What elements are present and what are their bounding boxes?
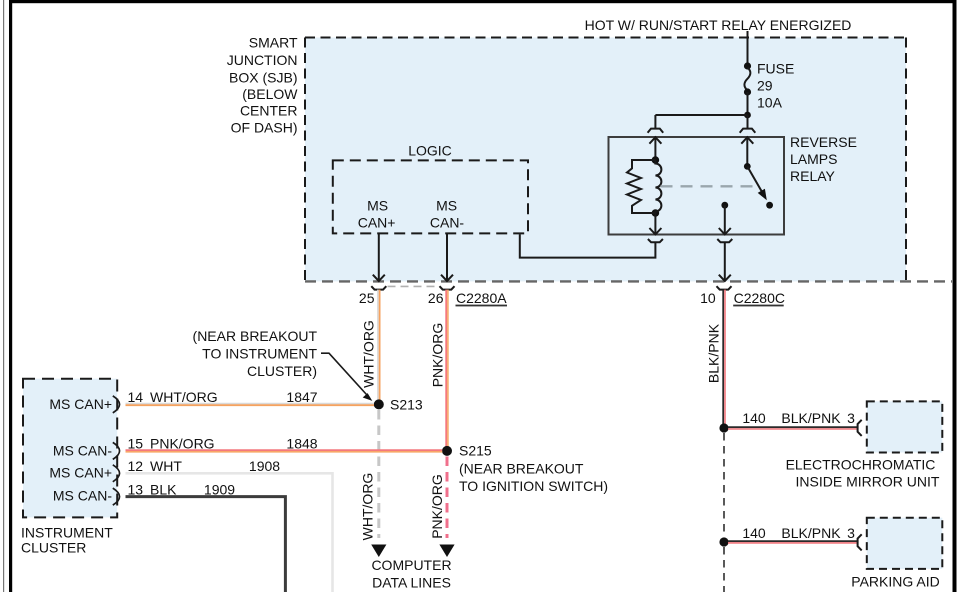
SJB left edge	[304, 38, 306, 282]
splice S213	[374, 399, 384, 409]
wire coil return to logic box	[520, 234, 656, 257]
parking aid module box	[867, 518, 943, 569]
wire 1848 PNK/ORG pin15 to S215	[126, 449, 443, 451]
pin socket arc 12	[113, 465, 120, 482]
coil (relay winding)	[655, 160, 661, 213]
svg-text:140: 140	[742, 410, 766, 426]
svg-text:CLUSTER: CLUSTER	[21, 540, 86, 556]
connector cup pin 10	[717, 286, 732, 289]
note arrow to S213	[321, 353, 367, 394]
label SMART JUNCTION BOX (SJB) (BELOW CENTER OF DASH)	[227, 35, 299, 136]
connector hat right relay pin	[740, 129, 756, 133]
connector cup parking aid	[858, 534, 862, 550]
svg-text:PARKING AID: PARKING AID	[851, 574, 939, 590]
svg-text:INSTRUMENT: INSTRUMENT	[21, 525, 113, 541]
svg-text:10A: 10A	[757, 95, 783, 111]
wire WHT dashed (S213 to computer data lines)	[377, 410, 380, 538]
svg-text:MS CAN-: MS CAN-	[53, 442, 112, 458]
svg-text:PNK/ORG: PNK/ORG	[430, 323, 446, 388]
wire MS CAN- logic to SJB edge	[446, 233, 448, 281]
page edge thin line	[3, 0, 4, 592]
arrow into relay left pin	[649, 137, 661, 144]
wire PNK/ORG vertical (26 to S215)	[445, 290, 447, 451]
wire relay common down	[724, 205, 726, 234]
connector cup relay common	[717, 239, 732, 242]
wire BLK dashed below parking tap	[723, 547, 725, 592]
node coil top	[652, 156, 660, 164]
wire 140 BLK/PNK to parking aid	[728, 540, 857, 542]
svg-text:CLUSTER): CLUSTER)	[247, 363, 317, 379]
svg-text:BLK: BLK	[150, 481, 177, 497]
svg-text:WHT: WHT	[150, 458, 182, 474]
wire MS CAN+ logic to SJB edge	[378, 233, 380, 281]
splice S215	[442, 446, 452, 456]
wire 140 BLK/PNK to mirror	[728, 426, 857, 428]
wire from HOT label to fuse	[747, 31, 749, 66]
svg-text:MS CAN-: MS CAN-	[53, 488, 112, 504]
svg-text:1909: 1909	[204, 481, 235, 497]
svg-text:SMART: SMART	[249, 35, 298, 51]
arrow out relay common	[719, 228, 731, 234]
arrow BLK/PNK at SJB edge	[719, 275, 731, 281]
svg-text:S213: S213	[390, 397, 423, 413]
svg-text:14: 14	[128, 389, 144, 405]
switch arm	[747, 166, 762, 192]
svg-text:PNK/ORG: PNK/ORG	[429, 474, 445, 539]
arrow to computer data lines (left)	[371, 545, 386, 558]
svg-text:INSIDE MIRROR UNIT: INSIDE MIRROR UNIT	[796, 474, 940, 490]
svg-text:MS: MS	[436, 197, 457, 213]
svg-text:TO IGNITION SWITCH): TO IGNITION SWITCH)	[459, 478, 608, 494]
svg-text:WHT/ORG: WHT/ORG	[150, 389, 218, 405]
wire left drop to relay pin	[654, 115, 656, 129]
svg-text:10: 10	[700, 290, 716, 306]
svg-text:(BELOW: (BELOW	[242, 86, 298, 102]
connector cup coil return	[648, 239, 663, 242]
wire coil return down	[654, 213, 656, 234]
svg-text:BOX (SJB): BOX (SJB)	[229, 70, 297, 86]
svg-text:COMPUTER: COMPUTER	[371, 557, 451, 573]
svg-text:(NEAR BREAKOUT: (NEAR BREAKOUT	[193, 328, 318, 344]
arrow out coil return	[649, 228, 661, 234]
svg-text:140: 140	[742, 525, 766, 541]
note NEAR BREAKOUT TO INSTRUMENT CLUSTER	[193, 328, 318, 379]
svg-text:CAN+: CAN+	[358, 215, 396, 231]
svg-text:TO INSTRUMENT: TO INSTRUMENT	[202, 346, 317, 362]
border top	[9, 0, 956, 3]
pin socket arc 13	[113, 488, 120, 505]
wire BLK dashed between junctions	[723, 433, 725, 537]
svg-text:DATA LINES: DATA LINES	[372, 575, 451, 591]
svg-text:OF DASH): OF DASH)	[231, 120, 298, 136]
svg-text:MS CAN+: MS CAN+	[49, 396, 112, 412]
arrow into relay right pin	[741, 137, 753, 144]
wire fuse to junction	[747, 92, 749, 115]
svg-text:MS CAN+: MS CAN+	[49, 465, 112, 481]
svg-text:C2280C: C2280C	[734, 290, 785, 306]
svg-text:HOT W/ RUN/START RELAY ENERGIZ: HOT W/ RUN/START RELAY ENERGIZED	[585, 17, 852, 33]
connector cup pin 25	[371, 286, 386, 289]
SJB top edge	[305, 37, 906, 39]
wire BLK/PNK vertical (10 to junction)	[722, 290, 724, 428]
connector cup mirror	[858, 420, 862, 436]
fuse F29 10A	[744, 62, 751, 69]
junction node above relay	[744, 112, 751, 119]
wire 1847 WHT/ORG pin14 to S213	[126, 403, 375, 405]
svg-text:BLK/PNK: BLK/PNK	[781, 410, 841, 426]
instrument cluster box	[23, 379, 117, 518]
svg-text:3: 3	[847, 525, 855, 541]
SJB bottom edge	[305, 280, 952, 282]
resistor (relay)	[627, 160, 655, 213]
svg-text:25: 25	[359, 290, 375, 306]
wire junction horizontal	[655, 114, 747, 116]
svg-text:RELAY: RELAY	[790, 168, 836, 184]
svg-text:PNK/ORG: PNK/ORG	[150, 436, 215, 452]
junction node parking tap	[719, 537, 728, 546]
reverse lamps relay box	[609, 137, 785, 235]
svg-text:29: 29	[757, 78, 773, 94]
svg-text:BLK/PNK: BLK/PNK	[781, 525, 841, 541]
svg-text:3: 3	[847, 410, 855, 426]
logic box	[333, 160, 528, 233]
svg-text:REVERSE: REVERSE	[790, 134, 857, 150]
svg-text:BLK/PNK: BLK/PNK	[706, 323, 722, 383]
svg-text:WHT/ORG: WHT/ORG	[360, 473, 376, 541]
wire 1909 BLK pin13	[126, 497, 286, 592]
svg-text:FUSE: FUSE	[757, 61, 794, 77]
svg-text:1848: 1848	[286, 436, 317, 452]
svg-text:12: 12	[128, 458, 144, 474]
node coil bottom	[652, 209, 660, 217]
svg-text:15: 15	[128, 436, 144, 452]
pin socket arc 14	[113, 396, 120, 413]
connector hat left relay pin	[648, 129, 664, 133]
svg-text:1908: 1908	[249, 458, 280, 474]
connector link dashed C2280A	[388, 285, 439, 287]
svg-text:WHT/ORG: WHT/ORG	[361, 320, 377, 388]
border right	[953, 0, 957, 592]
wire right drop to relay pin	[747, 115, 749, 129]
switch pivot node	[744, 163, 751, 170]
svg-text:S215: S215	[459, 443, 492, 459]
SJB right edge	[905, 38, 907, 282]
svg-text:C2280A: C2280A	[456, 290, 507, 306]
electrochromatic inside mirror unit box	[867, 401, 943, 452]
svg-text:MS: MS	[367, 197, 388, 213]
relay common node	[721, 202, 728, 209]
svg-text:LOGIC: LOGIC	[408, 143, 452, 159]
arrow to computer data lines (right)	[439, 545, 454, 558]
svg-text:LAMPS: LAMPS	[790, 151, 837, 167]
svg-text:JUNCTION: JUNCTION	[227, 52, 298, 68]
wire PNK dashed (S215 to computer data lines)	[446, 457, 449, 539]
svg-text:1847: 1847	[286, 389, 317, 405]
svg-text:(NEAR BREAKOUT: (NEAR BREAKOUT	[459, 461, 584, 477]
connector cup pin 26	[440, 286, 455, 289]
relay actuation dashed link	[661, 185, 756, 187]
svg-text:26: 26	[428, 290, 444, 306]
pin socket arc 15	[113, 442, 120, 459]
junction node mirror tap	[719, 423, 728, 432]
svg-text:CAN-: CAN-	[430, 215, 465, 231]
border left	[9, 0, 12, 592]
svg-text:CENTER: CENTER	[240, 103, 298, 119]
wire WHT/ORG vertical (25 to S213)	[377, 290, 379, 405]
smart junction box SJB (fill)	[305, 38, 906, 282]
svg-text:13: 13	[128, 481, 144, 497]
switch contact node	[766, 202, 773, 209]
svg-text:ELECTROCHROMATIC: ELECTROCHROMATIC	[786, 457, 936, 473]
wire 1908 WHT pin12	[126, 473, 333, 592]
